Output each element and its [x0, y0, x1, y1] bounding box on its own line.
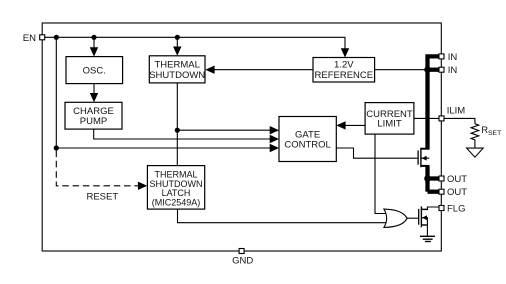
svg-text:ILIM: ILIM	[447, 105, 466, 116]
wire OUT1 thick stub	[428, 176, 440, 180]
wire reference to IN	[375, 69, 439, 71]
node OSC drop junction	[91, 35, 96, 40]
svg-text:THERMAL: THERMAL	[154, 59, 199, 70]
svg-text:RESET: RESET	[86, 191, 118, 202]
svg-text:PUMP: PUMP	[80, 116, 107, 127]
wire EN to gate control	[56, 147, 270, 149]
transistor Q2 (FLG open-drain FET)	[419, 206, 428, 227]
block OSC	[66, 57, 123, 84]
pin ILIM terminal	[439, 116, 444, 121]
svg-text:IN: IN	[448, 52, 458, 63]
pin EN terminal	[40, 35, 45, 40]
arrowhead into gate control right	[336, 121, 345, 129]
node EN junction	[54, 35, 59, 40]
wire EN horizontal	[45, 37, 345, 53]
wire Q2 drain to FLG	[421, 207, 439, 209]
svg-text:SET: SET	[488, 130, 501, 137]
pin OUT terminal 2	[439, 189, 444, 194]
block THERMAL SHUTDOWN LATCH (MIC2549A)	[147, 166, 204, 210]
wire current limit to OR gate	[375, 134, 387, 213]
arrowhead gate control input 2	[270, 135, 279, 143]
arrowhead into charge pump	[90, 93, 98, 102]
wire current limit to ILIM	[414, 117, 439, 119]
wire RESET dashed	[56, 151, 138, 186]
block THERMAL SHUTDOWN	[149, 56, 205, 83]
pin OUT terminal 1	[439, 176, 444, 181]
wire EN branch vertical	[55, 37, 57, 148]
wire OSC to charge pump	[93, 84, 95, 95]
arrowhead into OSC	[90, 47, 98, 56]
transistor Q1 (P-channel pass FET)	[418, 148, 429, 167]
node thermal drop junction	[175, 35, 180, 40]
svg-text:REFERENCE: REFERENCE	[315, 70, 374, 81]
node reference-IN junction	[424, 66, 431, 73]
resistor RSET	[471, 124, 479, 148]
power rail IN to Q1 drain	[428, 56, 440, 191]
block CURRENT LIMIT	[365, 103, 414, 135]
arrowhead gate control input 1	[270, 126, 279, 134]
block GATE CONTROL	[279, 117, 336, 162]
svg-text:FLG: FLG	[447, 203, 465, 214]
wire OR output to Q2 gate	[407, 217, 418, 219]
svg-text:OSC.: OSC.	[83, 65, 106, 76]
svg-text:CHARGE: CHARGE	[73, 106, 114, 117]
wire OUT2 thick stub	[428, 190, 440, 194]
IC boundary	[42, 23, 441, 251]
wire thermal shutdown arrow drop	[176, 37, 178, 49]
node OUT1 junction	[424, 175, 431, 182]
wire OSC arrow drop	[93, 37, 95, 50]
wire ILIM to Rset	[444, 118, 475, 123]
arrowhead into reference top	[341, 48, 349, 57]
pin IN terminal 2	[439, 67, 444, 72]
wire reference to thermal shutdown	[215, 69, 314, 71]
svg-text:SHUTDOWN: SHUTDOWN	[149, 70, 205, 81]
ground (signal ground under Q2)	[420, 236, 435, 241]
wire gate control output to Q1 gate	[336, 148, 417, 158]
arrowhead RESET	[138, 182, 147, 190]
pin GND terminal	[239, 249, 244, 254]
wire current limit to gate control	[346, 124, 366, 126]
pin IN terminal 1	[439, 54, 444, 59]
block CHARGE PUMP	[65, 102, 122, 129]
node EN gate-control junction	[54, 145, 59, 150]
wire IN2 thick stub	[428, 68, 440, 72]
pin FLG terminal	[439, 206, 444, 211]
arrowhead into thermal shutdown top	[173, 47, 181, 56]
svg-text:1.2V: 1.2V	[334, 60, 354, 71]
svg-text:LIMIT: LIMIT	[377, 119, 401, 130]
OR gate U2	[384, 209, 407, 227]
wire thermal shutdown to gate control	[177, 129, 270, 131]
wire thermal shutdown to latch	[176, 83, 178, 166]
node thermal shutdown junction	[175, 128, 180, 133]
svg-text:(MIC2549A): (MIC2549A)	[152, 198, 201, 208]
wire latch output to OR gate	[178, 209, 390, 223]
svg-text:GND: GND	[232, 256, 253, 267]
ground (Rset analog ground triangle)	[467, 148, 484, 157]
arrowhead into thermal shutdown right	[205, 66, 214, 74]
svg-text:OUT: OUT	[447, 187, 467, 198]
arrowhead gate control input 3	[270, 144, 279, 152]
svg-text:EN: EN	[23, 33, 36, 44]
svg-text:GATE: GATE	[295, 129, 320, 140]
wire Q2 source to ground	[426, 218, 428, 237]
power rail Q1 source to OUT	[425, 166, 429, 192]
svg-text:CONTROL: CONTROL	[284, 140, 330, 151]
svg-text:IN: IN	[448, 65, 458, 76]
block 1.2V REFERENCE	[313, 58, 375, 83]
svg-text:OUT: OUT	[447, 174, 467, 185]
wire charge pump output	[94, 129, 271, 139]
